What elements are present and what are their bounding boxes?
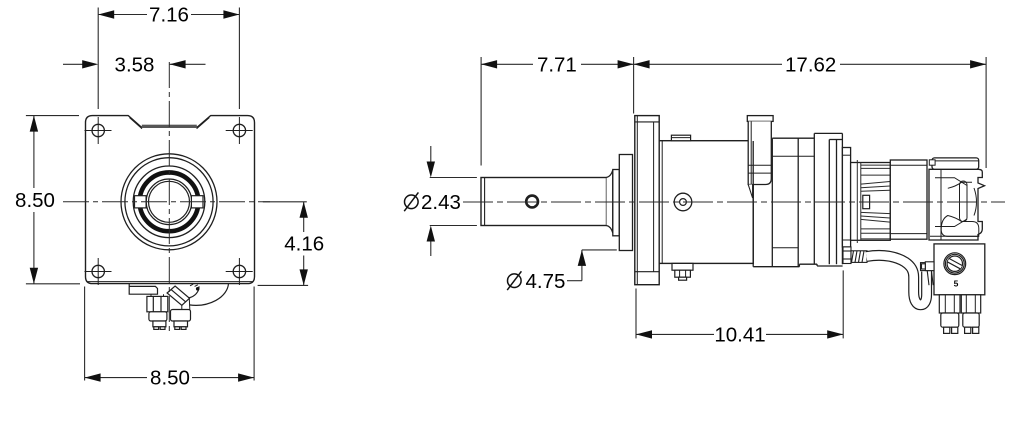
top mounting bracket (747, 116, 773, 198)
svg-text:10.41: 10.41 (714, 324, 765, 347)
front view vertical centerline (168, 62, 170, 331)
bottom tilted elbow collar (167, 286, 190, 309)
gear housing block (753, 133, 842, 266)
notch inner bend lines (130, 118, 210, 129)
svg-text:7.71: 7.71 (537, 53, 577, 76)
manifold bottom hex fitting right (961, 295, 980, 334)
svg-text:3.58: 3.58 (115, 53, 155, 76)
mounting hole bottom-left (85, 258, 112, 285)
main body cylinder (659, 141, 753, 264)
manifold port with screw slot (944, 253, 966, 275)
mounting flange (edge view) (635, 116, 659, 285)
hose loop (867, 255, 927, 304)
bearing retaining ring (thick dark) (140, 172, 199, 231)
retaining ring left tab (135, 196, 147, 208)
motor lamination square (863, 195, 870, 208)
svg-text:4.75: 4.75 (526, 270, 566, 293)
adapter ring (842, 148, 850, 248)
bottom fitting bracket (129, 284, 157, 294)
front view horizontal centerline (63, 201, 270, 203)
hose elbow into valve block (921, 263, 935, 286)
top boss on body (671, 135, 690, 141)
dimension 4.16 (center to bottom) (258, 202, 309, 286)
dimension 3.58 (center offset) (63, 63, 206, 65)
plate bottom inner edge line (87, 281, 253, 283)
braided hose section (851, 251, 867, 263)
bottom drain plug on body (672, 263, 693, 280)
neck above hex fitting 1 (151, 294, 164, 296)
dimension 7.71 (shaft to flange) (481, 57, 633, 166)
center bore concentric circles (121, 154, 217, 250)
mounting hole bottom-right (226, 258, 253, 285)
mounting plate outline with top notch (86, 116, 255, 284)
dimension 8.50 left (plate height) (26, 116, 80, 284)
svg-text:5: 5 (954, 278, 959, 288)
hose fitting below adapter (843, 247, 851, 264)
elbow tick marks (190, 284, 198, 286)
svg-text:8.50: 8.50 (15, 189, 55, 212)
mounting hole top-right (226, 117, 253, 144)
dimension 7.16 (top hole spacing) (98, 8, 239, 110)
dimension 10.41 (flange to gear housing) (636, 270, 843, 338)
bottom hex fitting 2 (171, 310, 191, 330)
dimension dia 2.43 (shaft) (430, 146, 477, 256)
body port circle (674, 193, 692, 211)
manifold bottom hex fitting left (939, 295, 960, 334)
svg-text:17.62: 17.62 (785, 53, 836, 76)
bottom hex fitting 1 (147, 296, 168, 329)
elbow weld dot (196, 287, 200, 291)
manifold left elbow fitting (922, 262, 935, 271)
dimension 8.50 bottom (plate width) (85, 287, 255, 381)
pilot hub (4.75 dia) (619, 155, 632, 251)
svg-text:7.16: 7.16 (149, 4, 189, 27)
dimension 17.62 (flange to end) (634, 57, 987, 168)
retaining ring right tab (191, 196, 203, 208)
shaft fillet and collar (607, 170, 620, 236)
elbow hose arcs (189, 284, 229, 306)
end casting / valve housing (929, 158, 985, 240)
mounting hole top-left (85, 117, 112, 144)
svg-text:8.50: 8.50 (150, 367, 190, 390)
svg-text:2.43: 2.43 (421, 191, 461, 214)
shaft (481, 178, 607, 226)
valve manifold block (934, 244, 985, 295)
dimension dia 4.75 (pilot) (567, 250, 617, 281)
svg-text:4.16: 4.16 (284, 233, 324, 256)
motor end body (890, 160, 927, 239)
shaft bore circles (146, 179, 192, 225)
finned motor section (851, 163, 891, 241)
shaft cross hole (526, 196, 538, 208)
side view centerline (463, 201, 1005, 203)
